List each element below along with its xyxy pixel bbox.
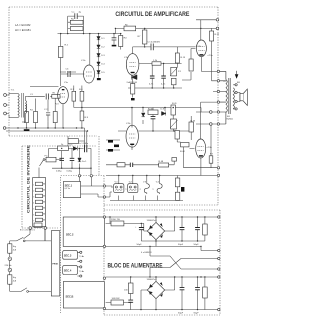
svg-text:7,5 Av: 7,5 Av [79, 255, 84, 258]
svg-text:50µF: 50µF [194, 313, 200, 315]
svg-text:Dr: Dr [61, 143, 64, 146]
svg-text:LA = ECC82: LA = ECC82 [15, 23, 31, 27]
svg-text:4: 4 [33, 202, 34, 204]
svg-text:SEC.4: SEC.4 [64, 268, 72, 272]
svg-text:R.15: R.15 [181, 57, 186, 59]
svg-text:7,5 Av: 7,5 Av [79, 270, 84, 273]
svg-text:1N4007x4: 1N4007x4 [147, 279, 158, 281]
svg-text:2xEFD108: 2xEFD108 [127, 82, 138, 84]
svg-text:CIRCUITUL DE AMPLIFICARE: CIRCUITUL DE AMPLIFICARE [115, 11, 189, 18]
svg-text:3: 3 [33, 196, 34, 198]
svg-text:R.21: R.21 [196, 46, 201, 48]
svg-text:4Ω: 4Ω [227, 116, 230, 118]
svg-text:B 0 C 250 0 E 0 1: B 0 C 250 0 E 0 1 [20, 229, 35, 231]
svg-text:630V: 630V [155, 42, 161, 44]
svg-text:SEC.2: SEC.2 [66, 232, 74, 236]
svg-text:6,3 Va: 6,3 Va [65, 188, 71, 190]
svg-text:8Ω/4Ω: 8Ω/4Ω [227, 119, 234, 121]
svg-text:Cu 1 100n: Cu 1 100n [78, 143, 89, 145]
svg-text:Dz 1: Dz 1 [82, 161, 87, 163]
svg-text:R.44: R.44 [180, 151, 185, 153]
svg-text:4 A: 4 A [13, 279, 17, 282]
svg-text:50µF: 50µF [137, 244, 143, 246]
svg-text:CIRCUITUL DE INTARZIERE: CIRCUITUL DE INTARZIERE [26, 145, 31, 213]
svg-text:R.22: R.22 [215, 34, 220, 36]
svg-text:LD = ECC81: LD = ECC81 [15, 28, 31, 32]
svg-text:R.40: R.40 [148, 109, 153, 111]
svg-text:2: 2 [33, 190, 34, 192]
svg-text:50µF: 50µF [194, 244, 200, 246]
svg-text:0,05µ: 0,05µ [56, 171, 62, 173]
svg-text:R.41: R.41 [172, 103, 177, 105]
svg-text:PRIM.: PRIM. [52, 263, 58, 265]
svg-text:4 x EM513: 4 x EM513 [141, 252, 152, 254]
svg-text:0,05µ: 0,05µ [67, 171, 73, 173]
svg-text:10Ω 5W: 10Ω 5W [112, 298, 121, 300]
svg-text:4 A: 4 A [13, 248, 17, 251]
svg-text:1N4007x4: 1N4007x4 [147, 220, 158, 222]
svg-text:2200 1W: 2200 1W [111, 219, 121, 221]
svg-text:BLOC DE ALIMENTARE: BLOC DE ALIMENTARE [108, 264, 163, 270]
svg-text:SEC.1: SEC.1 [65, 183, 73, 187]
svg-text:Pw: Pw [45, 155, 48, 157]
svg-text:1: 1 [33, 184, 34, 186]
svg-text:xT.3a: xT.3a [208, 55, 214, 57]
svg-text:SEC.B: SEC.B [66, 295, 74, 299]
svg-text:xT.3b: xT.3b [207, 147, 213, 149]
svg-text:5: 5 [33, 208, 34, 210]
svg-text:50µF: 50µF [178, 313, 184, 315]
svg-text:6: 6 [33, 214, 34, 216]
svg-text:8Ω: 8Ω [237, 82, 240, 84]
svg-text:7: 7 [33, 220, 34, 222]
svg-text:50µF: 50µF [178, 244, 184, 246]
svg-text:SEC.3: SEC.3 [64, 253, 72, 257]
svg-text:R 48: R 48 [159, 161, 164, 163]
svg-text:220 Hz: 220 Hz [5, 265, 12, 267]
svg-text:R.43: R.43 [191, 121, 196, 123]
